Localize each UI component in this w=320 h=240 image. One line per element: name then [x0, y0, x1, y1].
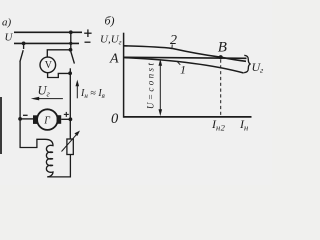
line U=const network voltage: [124, 57, 247, 58]
wire bottom return: [47, 155, 70, 177]
svg-text:В: В: [218, 40, 227, 56]
svg-text:1: 1: [180, 63, 186, 77]
inductor field winding: [45, 139, 53, 177]
wire below switch to + node: [69, 68, 71, 119]
wire bus drop from + bus: [70, 32, 72, 50]
minus sign at left brush: [23, 114, 28, 116]
voltmeter V: [40, 57, 56, 73]
svg-text:U,Uг: U,Uг: [100, 34, 122, 47]
wire voltmeter bottom lead: [48, 73, 71, 78]
dashed line at I_н2: [220, 60, 222, 117]
wire left vertical: [19, 62, 21, 120]
switch S2 right blade: [71, 52, 75, 64]
svg-text:2: 2: [170, 33, 177, 48]
rheostat R regulating: [67, 139, 73, 155]
junction wire crossing on − bus: [69, 42, 72, 45]
junction below switch S2: [68, 71, 72, 75]
junction on − bus: [22, 42, 26, 46]
x-axis: [124, 116, 252, 118]
brush right: [57, 115, 62, 124]
wire right brush to node: [61, 118, 70, 120]
junction armature + node: [69, 117, 73, 121]
svg-text:А: А: [109, 52, 119, 67]
dimension arrow U=const: [159, 63, 161, 112]
brace for U_г: [244, 55, 251, 72]
svg-text:б): б): [105, 14, 115, 28]
svg-text:0: 0: [111, 111, 119, 127]
node B dot: [219, 55, 223, 59]
wire top bus (+): [14, 31, 82, 33]
arrow I_н up: [76, 84, 78, 98]
svg-text:U=const: U=const: [145, 61, 155, 109]
junction top bus tap: [69, 30, 73, 34]
wire junction to left brush: [20, 118, 33, 120]
wire + node down to rheostat: [69, 119, 71, 139]
wire voltmeter top lead: [47, 50, 70, 58]
curve 2 external characteristic: [124, 46, 246, 62]
wire left step down to field winding: [20, 119, 45, 148]
minus terminal of bus: [85, 41, 91, 43]
svg-text:V: V: [45, 60, 53, 71]
junction voltmeter top tap: [69, 48, 73, 52]
switch S1 left blade: [20, 43, 24, 61]
plus terminal of bus: [84, 29, 91, 37]
wire bottom bus (−): [14, 42, 79, 44]
plus sign at right brush: [64, 112, 69, 117]
svg-text:Г: Г: [43, 116, 50, 127]
svg-text:а): а): [2, 17, 12, 29]
y-axis: [123, 33, 125, 118]
svg-text:Iн ≈ Iя: Iн ≈ Iя: [80, 88, 105, 100]
generator armature Г: [37, 109, 58, 130]
brush left: [33, 115, 38, 124]
junction left armature node: [18, 117, 22, 121]
scan edge artifact: [0, 97, 2, 154]
curve 1 drooping characteristic: [124, 58, 244, 73]
svg-text:U: U: [5, 32, 14, 44]
arrow for U_г pointing left: [36, 98, 63, 100]
